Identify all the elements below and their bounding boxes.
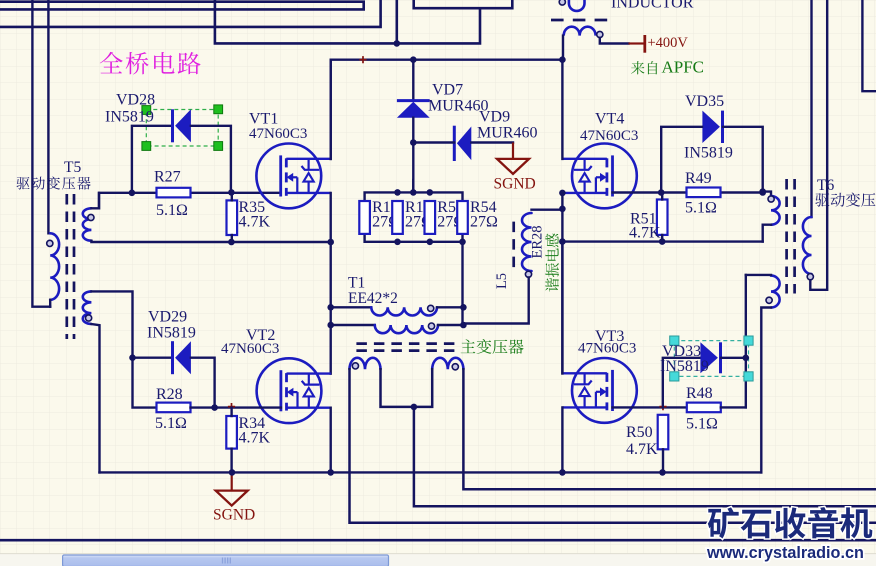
junction T1 center tap (411, 404, 418, 411)
wire top bus A-B U-turn (0, 2, 364, 10)
transformer T5 core line 2 (73, 194, 76, 339)
wire VD33 left lead (663, 358, 700, 408)
svg-text:R48: R48 (686, 385, 713, 402)
no-ERC marker VT2 gate (228, 403, 235, 410)
junctions VT1 source rail (228, 239, 334, 246)
svg-text:VD28: VD28 (116, 92, 155, 109)
junctions bank bottom rail (394, 239, 466, 246)
svg-text:APFC: APFC (662, 58, 705, 77)
phase dot T6 lower-left (766, 297, 772, 303)
junctions VT4 gate row (658, 189, 766, 196)
wire R50 bottom lead (662, 449, 664, 472)
wire bank top rail (365, 192, 463, 201)
svg-text:ER28: ER28 (529, 225, 545, 258)
wire ER28 top lead (532, 208, 563, 210)
svg-text:R28: R28 (156, 386, 183, 403)
resistor R54 (27 ohm bank) (457, 201, 468, 234)
wire VT4 source down / mid-bridge right (561, 193, 563, 374)
wire VT3 drain up (561, 242, 563, 374)
svg-text:47N60C3: 47N60C3 (249, 126, 307, 142)
junction T6 upper top (759, 188, 766, 195)
svg-text:+400V: +400V (648, 35, 689, 51)
svg-text:IN5819: IN5819 (684, 145, 733, 162)
transformer T1 core line 2 (356, 349, 459, 352)
wire T1 primary2 right lead (438, 324, 463, 326)
wire bank bottom rail (365, 234, 463, 242)
phase dot T6 upper-left (768, 196, 774, 202)
diode VD9 (454, 126, 471, 161)
title 全桥电路 (100, 52, 201, 75)
wire inductor left lead down (562, 36, 564, 60)
transformer T6 lower-left winding (771, 276, 780, 308)
label T6 驱动变压 (815, 193, 875, 207)
inductor core (551, 19, 608, 22)
svg-text:www.crystalradio.cn: www.crystalradio.cn (706, 544, 864, 562)
transistor VT3 47N60C3 (563, 358, 637, 423)
wire T5 primary bottom lead (49, 300, 51, 307)
junction T1 primary2 (327, 322, 466, 329)
phase dot T5 upper secondary (88, 214, 94, 220)
junctions on rail E (410, 56, 566, 63)
svg-text:5.1Ω: 5.1Ω (155, 415, 187, 432)
wire R48 right lead (721, 406, 746, 408)
wire bottom horizontal run (0, 539, 876, 542)
wire right vertical to T6 winding top (810, 0, 812, 217)
transistor VT2 47N60C3 (257, 358, 331, 423)
svg-text:MUR460: MUR460 (477, 125, 537, 142)
inductor ER28 core (512, 222, 515, 273)
wire R35 top lead (231, 192, 233, 200)
wire top bus D (215, 0, 512, 43)
svg-text:4.7K: 4.7K (626, 441, 658, 458)
svg-text:5.1Ω: 5.1Ω (685, 200, 717, 217)
wire left vertical 1 (32, 0, 50, 307)
transistor VT1 47N60C3 (256, 144, 330, 209)
wire VT4 source rail to T6 (562, 235, 762, 242)
svg-text:INDUCTOR: INDUCTOR (611, 0, 694, 12)
wire T1 sec inner leads + center tap (381, 369, 876, 506)
resistor R18 (27 ohm bank) (392, 201, 403, 234)
selection box of VD33 (670, 336, 753, 381)
inductor top winding (569, 0, 585, 11)
wire VD28 left lead (132, 126, 173, 193)
wire T1 sec left outer lead (350, 369, 876, 523)
svg-text:IN5819: IN5819 (105, 109, 154, 126)
selection box of VD28 (142, 105, 223, 151)
svg-text:R27: R27 (154, 169, 181, 186)
junctions bank top rail (394, 189, 433, 196)
wire VD29 right lead (191, 358, 215, 408)
wire VT1 gate row (99, 193, 281, 209)
wire T1 primary2 left lead (331, 324, 375, 326)
watermark 矿石收音机 (708, 507, 873, 538)
svg-text:IN5819: IN5819 (147, 325, 196, 342)
wire R28 left lead (133, 358, 157, 408)
wire VD9 right lead (471, 141, 513, 143)
wire T6 lower winding bottom lead (761, 308, 771, 473)
resistor R50 (658, 415, 669, 450)
wire R34 bottom lead (230, 449, 232, 473)
wire bottom source rail (100, 471, 762, 473)
svg-text:VT4: VT4 (595, 111, 624, 128)
wire R51 top lead (661, 193, 663, 200)
wire R34 top lead (230, 408, 232, 416)
wire bank bottom to T1 primary right (461, 242, 463, 325)
no-ERC marker VT3 gate (659, 403, 666, 410)
scrollbar track (0, 553, 876, 566)
svg-text:VD7: VD7 (432, 82, 463, 99)
label 谐振电感 (vertical) (545, 234, 559, 292)
svg-text:47N60C3: 47N60C3 (221, 341, 279, 357)
transformer T1 primary winding 1 (371, 307, 437, 315)
ground SGND bottom (216, 472, 248, 505)
wire vertical from top to node D (395, 0, 398, 43)
junction R28 right / VT2 gate (211, 404, 218, 411)
svg-text:SGND: SGND (213, 507, 255, 524)
phase dot T5 lower secondary (86, 315, 92, 321)
junctions bottom source rail (229, 469, 666, 476)
wire VT1 source down / mid-bridge left (330, 193, 332, 374)
phase dot T1 secondary right (452, 364, 458, 370)
svg-text:5.1Ω: 5.1Ω (156, 202, 188, 219)
label 主变压器 (461, 339, 524, 354)
svg-text:VD9: VD9 (479, 109, 510, 126)
transformer T6 core line 1 (785, 179, 788, 294)
transformer T6 right winding (803, 217, 812, 274)
resistor R17 (27 ohm bank) (359, 201, 370, 234)
svg-text:T1: T1 (348, 275, 365, 292)
phase dot T1 primary 1 (428, 305, 434, 311)
svg-text:4.7K: 4.7K (629, 225, 661, 242)
inductor output pin dot (597, 31, 603, 37)
label T5 驱动变压器 (17, 176, 91, 189)
wire VD29 left lead (133, 357, 173, 359)
phase dot T5 primary (47, 240, 53, 246)
wire VD7 anode down (412, 118, 414, 193)
diode VD29 (173, 341, 191, 374)
transformer T5 lower secondary winding (83, 291, 92, 324)
svg-text:IN5819: IN5819 (660, 358, 709, 375)
inductor lower winding L (564, 27, 596, 36)
wire R28 right lead (191, 406, 215, 408)
wire T5 lower sec bottom lead (91, 324, 99, 472)
transformer T6 upper-left winding (771, 196, 780, 225)
transformer T1 core line 1 (356, 342, 459, 345)
resistor R34 (226, 416, 237, 449)
transformer T1 primary winding 2 (375, 325, 438, 333)
svg-text:T6: T6 (817, 177, 834, 194)
wire VD35 right lead (723, 127, 763, 193)
svg-text:47N60C3: 47N60C3 (580, 128, 638, 144)
wire T6 lower top down to VD33/R48 (745, 275, 747, 408)
resistor R49 (687, 188, 721, 198)
junction on wire D (394, 40, 401, 47)
inductor top pin dot (559, 0, 565, 5)
wire top right corner (862, 0, 876, 91)
svg-text:EE42*2: EE42*2 (348, 290, 398, 307)
transformer T6 core line 2 (793, 179, 796, 294)
junctions VT1 gate row (129, 189, 235, 196)
diode VD7 (397, 101, 430, 118)
wire VD28 right lead (191, 126, 231, 193)
junction VD33 cathode (743, 355, 750, 362)
wire VD9 left lead (413, 141, 454, 143)
svg-text:4.7K: 4.7K (239, 214, 271, 231)
junction R51 bottom (659, 238, 666, 245)
resistor R51 (27 ohm bank) (425, 201, 436, 234)
wire T5 lower sec top lead to VD29 (91, 291, 132, 357)
junction VD7-VD9 node (410, 139, 417, 146)
svg-text:L5: L5 (494, 273, 510, 289)
svg-text:27Ω: 27Ω (470, 214, 498, 231)
inductor ER28 winding (522, 213, 532, 271)
wire VT3 gate row (613, 406, 688, 408)
transformer T1 secondary winding left (349, 358, 380, 369)
ground SGND near VD9 (497, 143, 529, 174)
wire VT4 drain up to inductor (561, 60, 563, 159)
junction T1 primary1 (327, 304, 466, 311)
scrollbar grip (222, 558, 224, 564)
wire VT2 gate row (215, 406, 281, 408)
phase dot T1 secondary left (352, 363, 358, 369)
wire ER28 bottom lead (463, 277, 528, 323)
wire +400V rail E (331, 60, 563, 159)
wire T6 upper winding bottom lead (763, 225, 771, 242)
phase dot T1 primary 2 (428, 323, 434, 329)
wire VT4 gate row (613, 191, 763, 193)
transformer T5 primary winding (50, 233, 59, 299)
svg-text:T5: T5 (64, 159, 81, 176)
transformer T5 upper secondary winding (83, 208, 92, 240)
wire bank feed from VD7 node (412, 180, 414, 192)
wire R35 bottom lead (231, 235, 233, 242)
wire T1 primary1 right lead (437, 306, 463, 308)
wire inductor output to +400V (600, 38, 629, 44)
wire top bus C (0, 0, 381, 27)
diode VD33 (700, 342, 720, 373)
wire VD33 right lead (721, 357, 746, 359)
wire right vertical to T6 winding bottom (810, 0, 827, 290)
junction VD29 left (129, 354, 136, 361)
wire T6 upper winding top lead (763, 192, 771, 196)
resistor R28 (157, 403, 191, 413)
svg-text:47N60C3: 47N60C3 (578, 341, 636, 357)
svg-text:VD29: VD29 (148, 309, 187, 326)
label 来自APFC (cjk part) (631, 61, 657, 74)
svg-text:VD35: VD35 (685, 93, 724, 110)
wire T5 upper sec top lead (91, 193, 99, 208)
resistor R51 gate-source (657, 200, 668, 235)
junction VT4 source node (559, 190, 566, 245)
svg-text:4.7K: 4.7K (239, 430, 271, 447)
resistor R27 (157, 188, 191, 198)
svg-text:SGND: SGND (494, 176, 536, 193)
svg-text:VT1: VT1 (249, 111, 278, 128)
phase dot T6 right (807, 274, 813, 280)
wire left vertical 2 (47, 0, 49, 233)
transistor VT4 47N60C3 (563, 144, 637, 209)
wire T6 lower winding top lead (746, 274, 771, 276)
transformer T5 core line 1 (65, 194, 68, 339)
resistor R35 (227, 200, 238, 235)
svg-text:5.1Ω: 5.1Ω (686, 416, 718, 433)
resistor R48 (687, 403, 721, 413)
diode VD28 (173, 109, 191, 142)
scrollbar thumb (63, 555, 389, 566)
phase dot ER28 (525, 271, 531, 277)
wire VT2 source down (330, 408, 332, 473)
diode VD35 (702, 111, 722, 143)
wire VT1 source rail (91, 241, 330, 242)
svg-text:R49: R49 (685, 170, 712, 187)
svg-text:R50: R50 (626, 424, 653, 441)
wire VT3 source down (561, 407, 563, 472)
wire VD35 left lead (661, 127, 702, 193)
wire T1 sec right outer lead (463, 369, 876, 489)
wire VD7 feed from rail E (412, 60, 414, 100)
wire T1 primary1 left lead (331, 306, 372, 308)
wire VT1 drain up (330, 60, 332, 159)
power port +400V (629, 35, 645, 53)
no-ERC marker on rail E (359, 56, 366, 63)
transformer T1 secondary winding right (432, 358, 463, 370)
